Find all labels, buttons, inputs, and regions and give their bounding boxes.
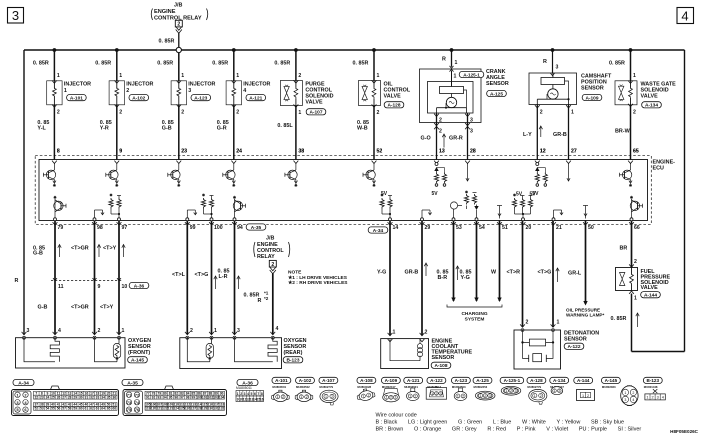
svg-text:BR-W: BR-W [615, 129, 631, 135]
svg-text:R: R [543, 59, 547, 65]
bus junction node [372, 48, 376, 52]
svg-text:13: 13 [439, 149, 445, 155]
svg-text:0. 85R: 0. 85R [212, 61, 228, 67]
svg-text:W: W [491, 270, 497, 276]
wire 66 BR to fuel pressure solenoid valve [620, 221, 638, 268]
bus junction node [629, 48, 633, 52]
svg-text:GR-B: GR-B [405, 270, 419, 276]
svg-text:GR-B: GR-B [553, 132, 567, 138]
svg-text:98: 98 [186, 395, 190, 399]
svg-text:9: 9 [119, 149, 122, 155]
connector A-108 drawing [356, 377, 376, 402]
svg-text:ENGINE: ENGINE [154, 9, 176, 15]
svg-text:1: 1 [431, 392, 433, 396]
svg-text:62: 62 [90, 407, 94, 411]
svg-text:2: 2 [540, 394, 542, 398]
wire 0.85R relay to bus [159, 33, 179, 47]
svg-text:21: 21 [556, 225, 562, 231]
svg-text:29: 29 [425, 225, 431, 231]
ECT thermistor coil [417, 344, 422, 349]
ECU bottom terminal 99 [185, 222, 196, 231]
ECU top terminal chevron [52, 161, 57, 164]
svg-text:92: 92 [152, 395, 156, 399]
svg-text:1: 1 [64, 88, 67, 94]
svg-text:4: 4 [58, 328, 61, 334]
front O2 sensing element [95, 338, 118, 362]
svg-text:76: 76 [135, 407, 140, 412]
connector A-121 drawing [404, 377, 423, 400]
svg-text:31: 31 [85, 395, 89, 399]
svg-text:L-Y: L-Y [523, 132, 532, 138]
svg-text:32: 32 [90, 395, 94, 399]
svg-text:24: 24 [46, 395, 50, 399]
svg-text:54: 54 [46, 407, 50, 411]
wire 20 T-R to detonation sensor pin 2 [507, 221, 529, 328]
svg-text:74: 74 [135, 400, 140, 405]
ECU top terminal 24 [236, 149, 242, 155]
svg-text:3: 3 [12, 8, 19, 23]
svg-text:RELAY: RELAY [257, 254, 275, 260]
detonation sensor resistor [529, 339, 545, 346]
connector A-107 drawing [319, 377, 338, 405]
svg-text:A-145: A-145 [131, 358, 144, 364]
svg-text:65: 65 [107, 407, 111, 411]
svg-text:98: 98 [97, 225, 103, 231]
connector A-128 drawing [527, 377, 547, 404]
svg-text:A-121: A-121 [407, 378, 420, 383]
svg-text:1: 1 [634, 296, 637, 302]
svg-text:38: 38 [298, 149, 304, 155]
svg-text:3: 3 [489, 394, 491, 398]
svg-text:A-125-1: A-125-1 [504, 378, 521, 383]
bus junction node [115, 48, 119, 52]
svg-text:2: 2 [331, 395, 333, 399]
svg-text:3: 3 [470, 129, 473, 135]
svg-text:2: 2 [435, 392, 437, 396]
svg-text:A-34: A-34 [18, 380, 29, 386]
svg-text:36: 36 [112, 395, 116, 399]
ECU top terminal 28 [470, 149, 476, 155]
svg-text:5V: 5V [432, 191, 439, 197]
svg-text:1: 1 [582, 394, 584, 398]
svg-text:J/B: J/B [174, 3, 182, 9]
svg-text:4: 4 [681, 9, 688, 24]
svg-text:G-R: G-R [217, 126, 227, 132]
ECU bottom terminal 98 [92, 222, 103, 231]
svg-text:3: 3 [515, 389, 517, 393]
svg-text:5: 5 [251, 392, 253, 396]
svg-text:25: 25 [51, 395, 55, 399]
connector label A-34 [368, 227, 388, 234]
svg-text:MU803503: MU803503 [452, 385, 466, 389]
svg-text:16: 16 [260, 397, 264, 401]
svg-text:MU802779: MU802779 [319, 385, 333, 389]
svg-text:J/B: J/B [266, 236, 274, 242]
bus junction node [551, 48, 555, 52]
svg-text:A-108: A-108 [360, 378, 373, 383]
ECU sense line (term 29) [421, 210, 432, 221]
svg-text:VALVE: VALVE [384, 94, 402, 100]
svg-text:A-128: A-128 [387, 103, 400, 109]
ECU bottom terminal 97 [117, 222, 128, 231]
ECU sense line (term 98) [93, 210, 104, 221]
svg-text:65: 65 [633, 149, 639, 155]
note LH/RH drive vehicles [288, 270, 348, 287]
svg-text:1: 1 [633, 73, 636, 79]
connector A-102 drawing [295, 377, 314, 401]
wire 79 0.85 G-B to front O2 pin 4 [33, 221, 64, 335]
svg-text:INJECTOR: INJECTOR [188, 82, 215, 88]
connector B-123 drawing [643, 377, 665, 400]
svg-text:A-145: A-145 [605, 378, 618, 383]
ECU bottom terminal 100 [209, 222, 223, 231]
svg-text:2: 2 [526, 320, 529, 326]
svg-text:CHARGING: CHARGING [461, 311, 487, 317]
svg-text:60: 60 [79, 407, 83, 411]
wire 14 Y-G to ECT pin 1 [377, 221, 396, 336]
svg-text:63: 63 [96, 407, 100, 411]
ECU injector driver transistor (term 24) [223, 164, 236, 187]
svg-text:R: R [15, 278, 19, 284]
ECU bottom terminal 21 [551, 222, 562, 231]
svg-text:79: 79 [58, 225, 64, 231]
wire 100 T-G to rear O2 pin 1 [195, 221, 218, 335]
connector label A-35 (ECU) [246, 224, 266, 231]
ECU top terminal chevron [176, 161, 181, 164]
camshaft sensor pin 2 wire [535, 105, 543, 160]
ECU waste gate driver transistor (term 65) [620, 164, 633, 187]
svg-text:MU802353: MU802353 [474, 385, 488, 389]
detonation sensor piezo element [523, 342, 554, 358]
svg-text:4: 4 [662, 396, 664, 400]
rear O2 sensing element [187, 338, 210, 362]
svg-text:3: 3 [470, 118, 473, 124]
wire 98 T-GR to front O2 pin 2 [71, 221, 101, 335]
svg-text:8: 8 [261, 392, 263, 396]
bus junction node [53, 48, 57, 52]
camshaft sensor pin 1 wire [566, 105, 574, 160]
svg-text:1: 1 [277, 395, 279, 399]
svg-text:99: 99 [191, 395, 195, 399]
svg-text:3: 3 [244, 392, 246, 396]
svg-text:1: 1 [457, 394, 459, 398]
svg-text:50: 50 [588, 225, 594, 231]
ECU fuel pressure driver transistor (term 66) [630, 196, 643, 221]
ECU crank input arrow (term 28) [466, 164, 469, 182]
wire colour code legend [376, 413, 642, 433]
wire 50 GR-L to oil pressure warning lamp [568, 221, 588, 306]
svg-text:A-102: A-102 [132, 95, 145, 101]
connector A-36 drawing [236, 379, 264, 401]
svg-text:GR-L: GR-L [568, 271, 582, 277]
wire 29 GR-B to ECT pin 2 [405, 221, 428, 336]
svg-text:34: 34 [101, 395, 105, 399]
svg-text:★2 : RH DRIVE VEHICLES: ★2 : RH DRIVE VEHICLES [288, 280, 348, 286]
svg-text:Y-G: Y-G [377, 270, 386, 276]
svg-text:132: 132 [219, 407, 225, 411]
connector A-36 junction dashed line [51, 278, 122, 280]
svg-text:1: 1 [646, 396, 648, 400]
ECU bottom terminal 79 [53, 222, 64, 231]
svg-text:2: 2 [240, 392, 242, 396]
ECU input bar (term 51) [497, 206, 502, 219]
svg-text:23: 23 [181, 149, 187, 155]
svg-text:SYSTEM: SYSTEM [465, 317, 485, 323]
svg-text:61: 61 [85, 407, 89, 411]
connector A-144 drawing [574, 377, 595, 400]
svg-text:1: 1 [571, 110, 574, 116]
engine coolant temperature sensor A-108 [381, 339, 473, 370]
crank sensor pin 3 wire [465, 113, 473, 160]
svg-text:INJECTOR: INJECTOR [243, 82, 270, 88]
svg-text:71: 71 [127, 392, 132, 397]
svg-text:99: 99 [190, 225, 196, 231]
bus junction connector circle [176, 47, 181, 52]
svg-text:A-102: A-102 [299, 378, 312, 383]
svg-text:GR-R: GR-R [449, 136, 463, 142]
svg-text:<T>Y: <T>Y [100, 305, 114, 311]
svg-text:A-101: A-101 [275, 378, 288, 383]
bus junction connector circle (overlay) [176, 47, 181, 52]
oxygen sensor (rear) B-123 [180, 336, 307, 368]
svg-text:52: 52 [34, 407, 38, 411]
svg-text:56: 56 [57, 407, 61, 411]
svg-text:A-128: A-128 [530, 378, 543, 383]
svg-text:1: 1 [554, 389, 556, 393]
connector A-125-1 drawing [500, 377, 524, 395]
bus right drop wire [632, 50, 685, 352]
svg-text:59: 59 [73, 407, 77, 411]
svg-text:2: 2 [306, 395, 308, 399]
ECU bottom terminal 50 [583, 222, 594, 231]
svg-text:MU801448: MU801448 [644, 385, 658, 389]
oxygen sensor (front) A-145 [16, 336, 152, 368]
ECU top terminal chevron [372, 161, 377, 164]
ECU bottom terminal 51 [497, 222, 508, 231]
svg-text:Wire colour code: Wire colour code [376, 413, 417, 419]
svg-text:1: 1 [377, 73, 380, 79]
svg-text:A-144: A-144 [644, 293, 657, 299]
connector A-34 drawing [12, 379, 119, 415]
svg-text:2: 2 [439, 118, 442, 124]
svg-text:20: 20 [526, 225, 532, 231]
bus junction node [450, 48, 454, 52]
svg-text:(REAR): (REAR) [284, 350, 303, 356]
svg-text:3: 3 [440, 392, 442, 396]
svg-text:4: 4 [243, 88, 246, 94]
svg-text:73: 73 [127, 400, 132, 405]
power bus 0.85R [24, 49, 685, 51]
svg-text:4: 4 [276, 326, 279, 332]
svg-text:51: 51 [502, 225, 508, 231]
svg-text:1: 1 [181, 73, 184, 79]
svg-text:Y-G: Y-G [461, 275, 470, 281]
svg-text:2: 2 [510, 389, 512, 393]
injector 2 A-102 [95, 50, 153, 160]
svg-text:12: 12 [540, 149, 546, 155]
ECU O2 heater driver transistor (term 79) [54, 196, 67, 221]
svg-text:1: 1 [325, 395, 327, 399]
svg-text:MU802779: MU802779 [527, 385, 541, 389]
svg-text:VALVE: VALVE [641, 94, 659, 100]
svg-text:1: 1 [236, 73, 239, 79]
svg-text:G-B: G-B [162, 126, 172, 132]
svg-text:1: 1 [237, 392, 239, 396]
svg-text:2: 2 [632, 391, 634, 395]
svg-text:3: 3 [556, 65, 559, 71]
svg-text:9: 9 [98, 284, 101, 290]
crank sensor pin 2 wire [434, 113, 442, 160]
svg-text:2: 2 [126, 88, 129, 94]
svg-text:SENSOR: SENSOR [564, 337, 587, 343]
svg-text:A-125-1: A-125-1 [463, 72, 480, 77]
svg-text:BR : Brown O : Orange: BR : Brown O : Orange GR : Grey R : Red … [376, 426, 642, 432]
svg-text:1: 1 [298, 110, 301, 116]
connector A-35 drawing [122, 379, 227, 415]
svg-text:A-107: A-107 [322, 378, 335, 383]
ECU injector driver transistor (term 9) [106, 164, 119, 187]
ECU top terminal 27 [571, 149, 577, 155]
svg-text:2: 2 [57, 110, 60, 116]
oil pressure warning lamp note [566, 308, 604, 318]
svg-text:1: 1 [409, 394, 411, 398]
rear O2 heater circuit [235, 338, 273, 362]
svg-text:0. 85R: 0. 85R [353, 61, 369, 67]
svg-text:VALVE: VALVE [305, 100, 323, 106]
svg-text:1: 1 [393, 330, 396, 336]
svg-text:H8F05E026C: H8F05E026C [670, 429, 699, 434]
svg-text:A-35: A-35 [251, 225, 262, 231]
injector 4 A-121 [212, 50, 270, 160]
svg-text:5V: 5V [381, 191, 388, 197]
svg-text:2: 2 [540, 110, 543, 116]
connector A-122 drawing [426, 377, 446, 399]
J/B engine control relay (rear O2 feed) [254, 236, 290, 274]
J/B engine control relay (top feed) [151, 3, 208, 34]
svg-text:<T>GR: <T>GR [71, 246, 89, 252]
svg-text:1: 1 [214, 328, 217, 334]
ECU bottom terminal 29 [420, 222, 431, 231]
svg-text:Y-R: Y-R [100, 126, 109, 132]
svg-text:35: 35 [107, 395, 111, 399]
svg-text:NOTE: NOTE [288, 270, 302, 276]
svg-text:26: 26 [57, 395, 61, 399]
svg-text:A-107: A-107 [309, 110, 322, 116]
ECU injector driver transistor (term 8) [43, 164, 56, 187]
svg-text:1: 1 [119, 73, 122, 79]
engine ECU dashed border [35, 156, 651, 225]
svg-text:7: 7 [257, 392, 259, 396]
svg-text:A-34: A-34 [373, 228, 384, 234]
svg-text:BR: BR [620, 246, 628, 252]
svg-text:G-B: G-B [33, 251, 43, 257]
svg-text:3: 3 [624, 398, 626, 402]
svg-text:VALVE: VALVE [641, 285, 659, 291]
svg-text:2: 2 [282, 395, 284, 399]
wire 54 0.85 Y-G to charging system [460, 221, 479, 303]
svg-text:MU803501: MU803501 [404, 385, 418, 389]
svg-text:WARNING LAMP*: WARNING LAMP* [566, 313, 604, 318]
svg-text:A-123: A-123 [455, 378, 468, 383]
purge control solenoid valve A-107 [274, 50, 333, 160]
ECU top terminal chevron [535, 161, 540, 164]
ECU top terminal chevron [628, 161, 633, 164]
svg-text:MU802363: MU802363 [602, 385, 616, 389]
svg-text:R: R [442, 57, 446, 63]
svg-text:2: 2 [651, 396, 653, 400]
svg-text:*1: *1 [264, 291, 269, 296]
connector A-101 drawing [272, 377, 291, 401]
svg-text:2: 2 [558, 389, 560, 393]
svg-text:2: 2 [484, 394, 486, 398]
wire 97 T-Y to front O2 pin 1 [100, 221, 149, 335]
ECU bottom terminal 14 [388, 222, 399, 231]
svg-text:1: 1 [505, 389, 507, 393]
svg-text:2: 2 [98, 328, 101, 334]
svg-text:2: 2 [181, 110, 184, 116]
svg-text:★1 : LH DRIVE VEHICLES: ★1 : LH DRIVE VEHICLES [288, 275, 348, 281]
svg-text:33: 33 [96, 395, 100, 399]
svg-text:2: 2 [587, 394, 589, 398]
svg-text:55: 55 [51, 407, 55, 411]
svg-text:2: 2 [634, 259, 637, 265]
svg-text:0. 85R: 0. 85R [157, 61, 173, 67]
svg-text:SENSOR: SENSOR [432, 355, 455, 361]
svg-text:58: 58 [68, 407, 72, 411]
svg-text:0. 85R: 0. 85R [159, 39, 175, 45]
svg-text:A-122: A-122 [430, 378, 443, 383]
ECU top terminal chevron [566, 161, 571, 164]
connector A-125 drawing [473, 377, 495, 400]
svg-text:A-35: A-35 [127, 380, 138, 386]
svg-text:2: 2 [298, 73, 301, 79]
ECU cam input arrow (term 27) [567, 164, 570, 182]
svg-text:INJECTOR: INJECTOR [64, 82, 91, 88]
wire 51 W to charging system [491, 221, 502, 303]
svg-text:A-122: A-122 [567, 344, 580, 350]
svg-text:30: 30 [79, 395, 83, 399]
ECU sense line (term 99) [186, 210, 197, 221]
svg-text:SENSOR: SENSOR [581, 86, 604, 92]
wire 53 0.85 B-R to charging system [437, 221, 460, 303]
detonation sensor A-122 [514, 329, 599, 370]
svg-text:2: 2 [425, 330, 428, 336]
page ref 3 [8, 8, 24, 24]
svg-text:2: 2 [414, 394, 416, 398]
svg-text:104: 104 [219, 395, 225, 399]
bus junction node [294, 48, 298, 52]
svg-text:28: 28 [470, 149, 476, 155]
svg-text:3: 3 [188, 88, 191, 94]
ECU bottom terminal 54 [474, 222, 485, 231]
connector A-145 drawing [602, 377, 639, 405]
ECU bottom terminal 94 [232, 222, 243, 231]
ECU top terminal chevron [114, 161, 119, 164]
svg-text:96: 96 [174, 395, 178, 399]
svg-text:1: 1 [454, 74, 457, 80]
svg-text:97: 97 [180, 395, 184, 399]
svg-text:72: 72 [135, 392, 140, 397]
svg-text:A-121: A-121 [249, 95, 262, 101]
svg-text:MU803502: MU803502 [296, 385, 310, 389]
svg-text:27: 27 [571, 149, 577, 155]
svg-text:3: 3 [27, 328, 30, 334]
svg-text:0. 85R: 0. 85R [609, 61, 625, 67]
ECU top terminal 12 [540, 149, 546, 155]
svg-text:2: 2 [177, 22, 180, 28]
svg-text:6: 6 [254, 392, 256, 396]
svg-text:<T>G: <T>G [195, 272, 209, 278]
